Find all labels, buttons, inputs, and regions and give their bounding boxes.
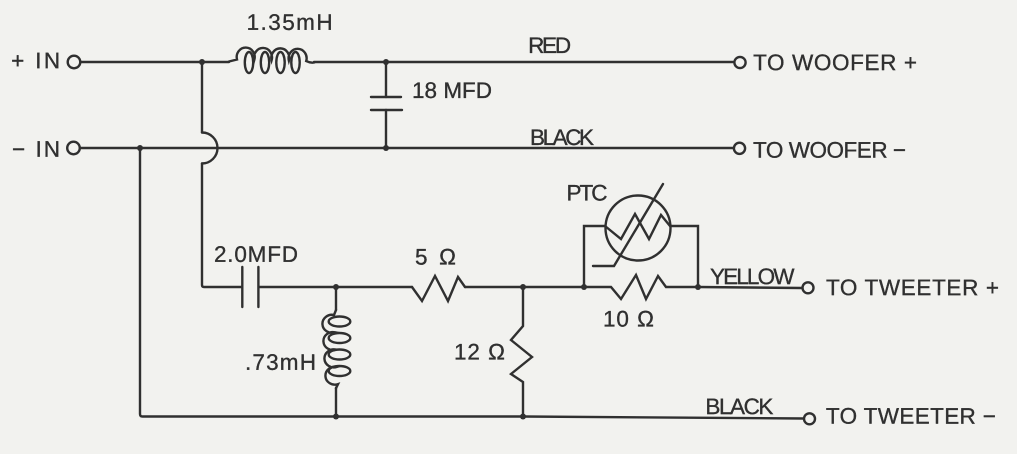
svg-text:+ IN: + IN: [11, 48, 60, 73]
capacitor C1 18 MFD stub top: [385, 62, 387, 97]
svg-text:PTC: PTC: [567, 181, 608, 206]
wire C2 to node B and resistor R1: [259, 286, 412, 288]
wire L1 to woofer+ terminal: [314, 61, 733, 63]
wire node A down, upper part: [201, 62, 203, 133]
capacitor C2 2.0MFD plate right: [257, 267, 259, 307]
junction PTC right dot: [695, 284, 701, 290]
junction R2 bottom dot: [520, 414, 526, 420]
svg-text:12 Ω: 12 Ω: [454, 339, 505, 364]
wire node A down to tweeter filter, corner to C2: [202, 164, 242, 288]
junction C1 bottom dot: [383, 145, 389, 151]
terminal IN-: [67, 142, 80, 155]
capacitor C1 plate bottom: [371, 109, 402, 111]
inductor L2 .73mH stub top: [335, 287, 337, 310]
svg-text:1.35mH: 1.35mH: [247, 10, 333, 35]
wire R1 to node C: [465, 286, 584, 288]
svg-text:− IN: − IN: [12, 137, 60, 162]
svg-text:5 Ω: 5 Ω: [415, 244, 456, 269]
wire to tweeter+ terminal: [698, 287, 802, 288]
junction C1 top dot: [383, 59, 389, 65]
junction node C dot: [520, 284, 526, 290]
svg-text:TO TWEETER −: TO TWEETER −: [826, 404, 996, 429]
resistor R2 12 ohm branch: [511, 287, 532, 417]
svg-text:BLACK: BLACK: [705, 394, 773, 419]
terminal IN+: [68, 56, 81, 69]
capacitor C2 2.0MFD plate left: [241, 267, 243, 307]
PTC bracket left vertical: [584, 226, 605, 287]
svg-text:TO WOOFER −: TO WOOFER −: [753, 138, 906, 163]
wire IN+ to node A: [81, 61, 229, 63]
capacitor C1 stub bottom: [385, 110, 387, 148]
svg-text:RED: RED: [528, 33, 571, 58]
junction IN- branch dot: [137, 145, 143, 151]
PTC circle: [606, 196, 671, 261]
svg-text:BLACK: BLACK: [530, 125, 594, 150]
junction node A dot: [199, 59, 205, 65]
wire IN- node down left side: [140, 148, 336, 417]
svg-text:YELLOW: YELLOW: [710, 264, 795, 289]
svg-text:TO TWEETER +: TO TWEETER +: [826, 275, 999, 300]
inductor L1 1.35mH: [229, 48, 314, 63]
capacitor C1 plate top: [371, 96, 401, 98]
terminal TO WOOFER +: [734, 57, 745, 68]
inductor L2 .73mH coil: [322, 310, 338, 388]
junction PTC left dot: [581, 284, 587, 290]
svg-text:18 MFD: 18 MFD: [412, 78, 492, 103]
svg-text:.73mH: .73mH: [245, 350, 316, 375]
resistor R3 10 ohm zigzag on main wire: [584, 275, 698, 299]
junction L2 bottom dot: [333, 414, 339, 420]
svg-text:2.0MFD: 2.0MFD: [214, 242, 298, 267]
wire hop over IN- wire: [202, 133, 218, 164]
svg-text:TO WOOFER +: TO WOOFER +: [753, 50, 917, 75]
PTC diagonal arrow: [593, 184, 663, 266]
inductor L2 stub bottom: [335, 388, 337, 417]
PTC bracket right vertical: [671, 226, 698, 287]
terminal TO TWEETER -: [804, 413, 815, 424]
PTC zigzag inside circle: [605, 214, 670, 239]
terminal TO WOOFER -: [734, 143, 745, 154]
wire bottom to tweeter- terminal: [336, 417, 803, 419]
wire IN- to woofer- terminal: [80, 147, 733, 149]
terminal TO TWEETER +: [803, 282, 814, 293]
resistor R1 5 ohm zigzag: [412, 276, 465, 301]
junction node B dot: [333, 284, 339, 290]
svg-text:10 Ω: 10 Ω: [603, 307, 654, 332]
